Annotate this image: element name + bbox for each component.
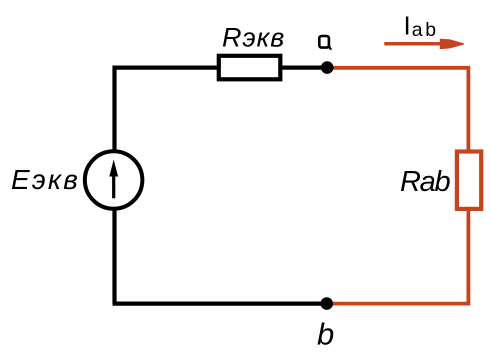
svg-text:Eэкв: Eэкв xyxy=(11,164,80,195)
wire: left vertical black through source E xyxy=(112,66,116,304)
resistor Rэкв (body) xyxy=(219,56,280,80)
svg-text:I: I xyxy=(404,11,411,41)
node b (junction dot) xyxy=(320,297,333,310)
svg-text:b: b xyxy=(317,316,334,351)
voltage source arrow (EMF direction, up) xyxy=(109,160,118,199)
current arrow Iab (red) xyxy=(384,39,464,50)
wire: top horizontal black from left corner to node a xyxy=(113,65,327,69)
wire: red from Rab bottom down then left to node b xyxy=(327,206,469,304)
resistor Rab (body) xyxy=(457,152,481,209)
label node a xyxy=(319,36,331,49)
wire: bottom horizontal black to node b xyxy=(113,302,327,306)
wire: red from node a right then down to Rab top xyxy=(327,68,468,155)
svg-text:Rэкв: Rэкв xyxy=(222,23,285,53)
svg-text:Rab: Rab xyxy=(400,166,450,198)
svg-text:ab: ab xyxy=(412,19,439,41)
voltage source Eэкв (circle) xyxy=(85,151,143,209)
node a (junction dot) xyxy=(321,61,334,74)
